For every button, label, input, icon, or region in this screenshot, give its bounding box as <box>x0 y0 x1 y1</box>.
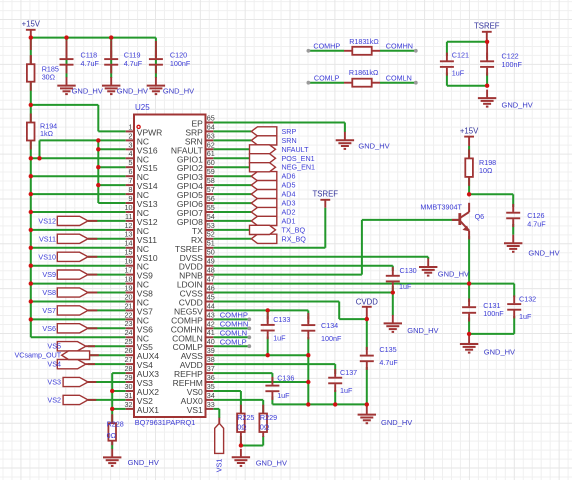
svg-text:1kΩ: 1kΩ <box>40 129 54 138</box>
svg-text:COMLN: COMLN <box>386 73 412 82</box>
svg-text:15: 15 <box>125 248 133 257</box>
svg-text:VS11: VS11 <box>39 234 56 243</box>
svg-text:29: 29 <box>125 373 133 382</box>
svg-text:SRP: SRP <box>282 127 297 136</box>
svg-text:1uF: 1uF <box>519 312 532 321</box>
svg-text:NFAULT: NFAULT <box>282 145 310 154</box>
svg-text:RX_BQ: RX_BQ <box>282 234 307 243</box>
svg-text:14: 14 <box>125 239 133 248</box>
svg-text:VS8: VS8 <box>42 288 56 297</box>
svg-text:49: 49 <box>207 257 215 266</box>
svg-text:GND_HV: GND_HV <box>407 326 438 335</box>
svg-text:16: 16 <box>125 257 133 266</box>
svg-text:30Ω: 30Ω <box>42 72 56 81</box>
svg-text:4: 4 <box>129 149 133 158</box>
svg-text:58: 58 <box>207 176 215 185</box>
svg-text:C134: C134 <box>321 321 338 330</box>
svg-text:GND_HV: GND_HV <box>256 459 287 468</box>
svg-text:37: 37 <box>207 364 215 373</box>
svg-text:61: 61 <box>207 149 215 158</box>
svg-text:AD2: AD2 <box>282 208 296 217</box>
svg-text:100nF: 100nF <box>321 334 342 343</box>
svg-text:C121: C121 <box>452 51 469 60</box>
svg-text:C136: C136 <box>277 374 294 383</box>
svg-text:SRN: SRN <box>282 136 297 145</box>
svg-text:R228: R228 <box>107 420 124 429</box>
svg-text:100nF: 100nF <box>502 60 523 69</box>
svg-text:10Ω: 10Ω <box>479 166 493 175</box>
svg-text:100nF: 100nF <box>483 309 504 318</box>
svg-text:GND_HV: GND_HV <box>528 249 559 258</box>
svg-text:VCsamp_OUT: VCsamp_OUT <box>14 351 61 360</box>
svg-text:10: 10 <box>125 203 133 212</box>
svg-text:GND_HV: GND_HV <box>484 347 515 356</box>
svg-text:VS3: VS3 <box>47 378 61 387</box>
svg-text:1uF: 1uF <box>273 333 286 342</box>
svg-text:21: 21 <box>125 301 133 310</box>
svg-text:U25: U25 <box>135 103 150 112</box>
svg-text:57: 57 <box>207 185 215 194</box>
svg-text:AD1: AD1 <box>282 216 296 225</box>
svg-text:C135: C135 <box>379 345 396 354</box>
svg-text:COMHP: COMHP <box>313 42 340 51</box>
svg-text:26: 26 <box>125 346 133 355</box>
svg-text:1uF: 1uF <box>399 282 412 291</box>
svg-text:33: 33 <box>207 400 215 409</box>
svg-text:+15V: +15V <box>460 127 479 136</box>
svg-text:18: 18 <box>125 275 133 284</box>
svg-text:6: 6 <box>129 167 133 176</box>
svg-text:51: 51 <box>207 239 215 248</box>
svg-text:62: 62 <box>207 140 215 149</box>
svg-text:4.7uF: 4.7uF <box>124 59 143 68</box>
svg-text:AD6: AD6 <box>282 172 296 181</box>
svg-text:GND_HV: GND_HV <box>128 458 159 467</box>
svg-text:4.7uF: 4.7uF <box>81 59 100 68</box>
svg-text:TSREF: TSREF <box>313 190 339 199</box>
svg-text:2: 2 <box>129 131 133 140</box>
svg-text:27: 27 <box>125 355 133 364</box>
svg-text:12: 12 <box>125 221 133 230</box>
svg-text:1uF: 1uF <box>277 391 290 400</box>
svg-text:R225: R225 <box>237 413 254 422</box>
svg-text:4.7uF: 4.7uF <box>379 358 398 367</box>
svg-text:39: 39 <box>207 346 215 355</box>
svg-text:24: 24 <box>125 328 133 337</box>
svg-text:VS4: VS4 <box>47 360 61 369</box>
svg-text:R186: R186 <box>349 68 366 77</box>
svg-text:AUX1: AUX1 <box>137 405 159 415</box>
svg-text:5: 5 <box>129 158 133 167</box>
svg-text:R183: R183 <box>349 37 366 46</box>
svg-text:7: 7 <box>129 176 133 185</box>
svg-text:POS_EN1: POS_EN1 <box>282 154 315 163</box>
svg-text:4.7uF: 4.7uF <box>527 219 546 228</box>
svg-text:1kΩ: 1kΩ <box>366 37 380 46</box>
svg-text:MMBT3904T: MMBT3904T <box>420 202 462 211</box>
svg-text:+15V: +15V <box>22 20 41 29</box>
svg-text:31: 31 <box>125 391 133 400</box>
svg-text:30: 30 <box>125 382 133 391</box>
svg-text:43: 43 <box>207 310 215 319</box>
svg-text:32: 32 <box>125 400 133 409</box>
svg-text:19: 19 <box>125 283 133 292</box>
svg-text:NEG_EN1: NEG_EN1 <box>282 163 316 172</box>
svg-text:40: 40 <box>207 337 215 346</box>
svg-text:VS5: VS5 <box>47 342 61 351</box>
svg-text:28: 28 <box>125 364 133 373</box>
svg-text:C133: C133 <box>273 315 290 324</box>
svg-text:59: 59 <box>207 167 215 176</box>
svg-text:34: 34 <box>207 391 215 400</box>
svg-text:48: 48 <box>207 266 215 275</box>
svg-text:20: 20 <box>125 292 133 301</box>
svg-text:BQ79631PAPRQ1: BQ79631PAPRQ1 <box>135 418 196 427</box>
svg-text:AD5: AD5 <box>282 181 296 190</box>
svg-text:0Ω: 0Ω <box>107 431 117 440</box>
svg-text:17: 17 <box>125 266 133 275</box>
svg-text:VS6: VS6 <box>42 324 56 333</box>
svg-text:1uF: 1uF <box>340 386 353 395</box>
svg-text:60: 60 <box>207 158 215 167</box>
svg-text:Q6: Q6 <box>475 212 485 221</box>
svg-text:GND_HV: GND_HV <box>502 100 533 109</box>
svg-text:GND_HV: GND_HV <box>72 87 103 96</box>
svg-text:COMLN: COMLN <box>220 329 247 338</box>
svg-text:GND_HV: GND_HV <box>163 87 194 96</box>
svg-text:AD3: AD3 <box>282 199 296 208</box>
svg-text:64: 64 <box>207 122 215 131</box>
svg-text:53: 53 <box>207 221 215 230</box>
svg-text:55: 55 <box>207 203 215 212</box>
svg-text:47: 47 <box>207 275 215 284</box>
svg-text:56: 56 <box>207 194 215 203</box>
svg-text:COMLP: COMLP <box>314 73 340 82</box>
svg-text:25: 25 <box>125 337 133 346</box>
svg-text:42: 42 <box>207 319 215 328</box>
svg-text:VS12: VS12 <box>38 216 56 225</box>
svg-text:50: 50 <box>207 248 215 257</box>
svg-text:41: 41 <box>207 328 215 337</box>
svg-text:CVDD: CVDD <box>356 298 378 307</box>
svg-text:8: 8 <box>129 185 133 194</box>
svg-text:COMHN: COMHN <box>220 320 249 329</box>
svg-text:11: 11 <box>125 212 132 221</box>
svg-text:GND_HV: GND_HV <box>117 87 148 96</box>
svg-text:45: 45 <box>207 292 215 301</box>
svg-text:COMLP: COMLP <box>220 338 247 347</box>
svg-text:TX_BQ: TX_BQ <box>282 225 306 234</box>
svg-text:1uF: 1uF <box>452 68 465 77</box>
svg-text:46: 46 <box>207 283 215 292</box>
svg-text:C132: C132 <box>519 294 536 303</box>
svg-text:54: 54 <box>207 212 215 221</box>
svg-text:C137: C137 <box>340 368 357 377</box>
svg-text:1kΩ: 1kΩ <box>365 68 379 77</box>
svg-text:1: 1 <box>129 122 133 131</box>
svg-text:VS1: VS1 <box>187 405 203 415</box>
svg-text:VS7: VS7 <box>42 306 56 315</box>
svg-text:36: 36 <box>207 373 215 382</box>
svg-text:23: 23 <box>125 319 133 328</box>
svg-text:0Ω: 0Ω <box>260 422 270 431</box>
svg-text:52: 52 <box>207 230 215 239</box>
svg-text:9: 9 <box>129 194 133 203</box>
svg-text:GND_HV: GND_HV <box>358 141 389 150</box>
svg-text:AD4: AD4 <box>282 190 296 199</box>
svg-text:VS10: VS10 <box>38 252 56 261</box>
svg-text:TSREF: TSREF <box>474 22 500 31</box>
svg-text:3: 3 <box>129 140 133 149</box>
svg-text:GND_HV: GND_HV <box>438 270 469 279</box>
svg-text:GND_HV: GND_HV <box>381 418 412 427</box>
svg-text:VS9: VS9 <box>42 270 56 279</box>
svg-text:13: 13 <box>125 230 133 239</box>
svg-text:COMHN: COMHN <box>386 42 413 51</box>
svg-text:VS1: VS1 <box>215 459 224 473</box>
svg-text:COMHP: COMHP <box>220 311 248 320</box>
svg-text:22: 22 <box>125 310 133 319</box>
svg-text:100nF: 100nF <box>170 59 191 68</box>
svg-text:C130: C130 <box>400 266 417 275</box>
svg-text:65: 65 <box>207 113 215 122</box>
svg-text:63: 63 <box>207 131 215 140</box>
svg-text:R229: R229 <box>260 413 277 422</box>
svg-text:44: 44 <box>207 301 215 310</box>
svg-text:35: 35 <box>207 382 215 391</box>
svg-text:38: 38 <box>207 355 215 364</box>
svg-text:0Ω: 0Ω <box>237 422 247 431</box>
svg-text:VS2: VS2 <box>47 395 61 404</box>
